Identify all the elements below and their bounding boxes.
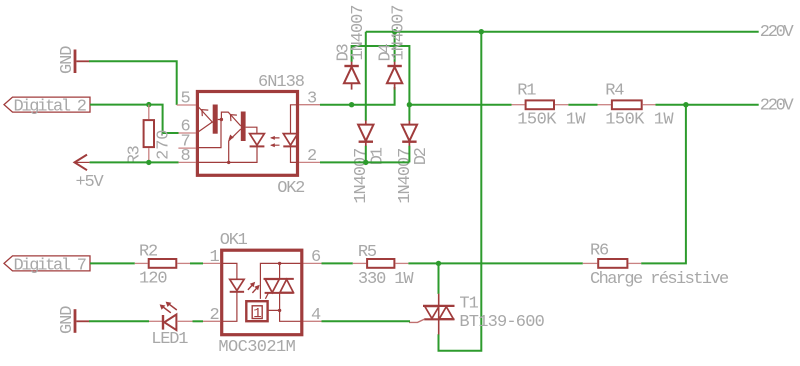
svg-text:T1: T1 <box>459 295 478 314</box>
svg-text:220V: 220V <box>760 96 795 115</box>
wire R2 to OK1 pin1 <box>190 262 203 264</box>
svg-text:270: 270 <box>154 130 173 160</box>
wire D3 cathode to D2 column <box>352 46 410 105</box>
wire OK1 pin6 to R5 <box>322 262 353 264</box>
pin 6 <box>303 248 321 267</box>
junction at R3 bottom <box>146 160 151 165</box>
svg-text:MOC3021M: MOC3021M <box>218 338 295 357</box>
svg-text:2: 2 <box>307 147 317 166</box>
svg-text:OK1: OK1 <box>220 231 248 250</box>
svg-text:GND: GND <box>58 306 77 334</box>
pin 3 <box>299 89 321 108</box>
wire top 220V line <box>366 31 759 33</box>
svg-text:GND: GND <box>58 46 77 74</box>
pin 7 <box>178 133 196 152</box>
svg-text:Digital 2: Digital 2 <box>14 98 86 117</box>
supply +5V <box>75 155 105 193</box>
wire OK2 pin2 <box>320 161 409 163</box>
wire Digital 7 to R2 <box>90 262 135 264</box>
svg-text:Digital 7: Digital 7 <box>14 256 86 275</box>
wire LED1 to OK1 pin2 <box>193 320 204 322</box>
resistor R2 <box>135 242 190 288</box>
diode D1 <box>352 121 387 204</box>
wire GND to LED1 <box>89 320 149 322</box>
svg-text:2: 2 <box>210 306 220 325</box>
svg-text:6N138: 6N138 <box>258 73 305 92</box>
svg-text:220V: 220V <box>760 23 795 42</box>
wire D2 top/bottom <box>408 105 410 163</box>
wire R4 to 220V right <box>656 104 759 106</box>
OK1 internal LED, arrows, triac, zero-cross box <box>222 262 303 323</box>
svg-text:1N4007: 1N4007 <box>349 6 368 61</box>
junction D4 top <box>392 29 397 34</box>
ground GND (top) <box>58 46 90 74</box>
ground GND (bottom) <box>58 306 90 334</box>
resistor R6 <box>583 241 729 289</box>
svg-text:Charge résistive: Charge résistive <box>590 270 729 289</box>
junction D3 bottom <box>349 102 354 107</box>
svg-text:R4: R4 <box>605 81 624 100</box>
wire R6 up to 220V line <box>641 105 686 264</box>
svg-text:4: 4 <box>311 306 321 325</box>
wire long vertical to triac <box>439 32 482 351</box>
LED LED1 <box>149 302 193 349</box>
pin 1 <box>203 248 220 267</box>
wire GND to OK2 pin5 <box>89 61 177 105</box>
svg-text:5: 5 <box>181 89 191 108</box>
wire +5V to OK2 pin8 <box>90 161 179 163</box>
svg-text:+5V: +5V <box>76 173 105 192</box>
svg-text:R5: R5 <box>358 243 377 262</box>
svg-text:6: 6 <box>311 248 321 267</box>
svg-text:R6: R6 <box>590 241 609 260</box>
svg-text:BT139-600: BT139-600 <box>459 313 544 332</box>
svg-text:1: 1 <box>253 306 261 322</box>
svg-text:D2: D2 <box>412 148 431 165</box>
svg-text:8: 8 <box>181 147 191 166</box>
pin 2 <box>203 306 220 325</box>
node Digital 2 label <box>4 97 90 117</box>
svg-text:R2: R2 <box>139 242 157 261</box>
svg-text:150K 1W: 150K 1W <box>517 111 586 130</box>
wire OK2 pin3 to D3/D4 <box>320 87 395 105</box>
wire D1 bottom to pin2 line <box>365 146 367 163</box>
svg-text:150K 1W: 150K 1W <box>605 111 674 130</box>
junction 220V vertical <box>479 29 484 34</box>
wire junction down to triac T1 <box>438 263 440 294</box>
junction triac top <box>436 261 441 266</box>
svg-text:LED1: LED1 <box>151 330 188 349</box>
wire D1 column from top line <box>365 32 367 121</box>
junction right vertical top <box>683 102 688 107</box>
wire D2 junction to R1 <box>409 104 511 106</box>
resistor R1 <box>512 81 587 129</box>
wire R5 to R6 <box>408 262 582 264</box>
wire D4 top <box>394 32 396 62</box>
diode D4 <box>376 6 408 90</box>
wire Digital 2 to OK2 pin6 <box>90 105 179 133</box>
junction D2 top <box>407 102 412 107</box>
junction at R3 top <box>146 102 151 107</box>
pin 6 <box>178 118 196 137</box>
optocoupler OK1 MOC3021M box <box>218 231 301 357</box>
pin 8 <box>178 147 196 166</box>
triac T1 BT139-600 <box>409 294 545 335</box>
resistor R5 <box>353 243 415 289</box>
diode D3 <box>335 6 368 90</box>
svg-text:330 1W: 330 1W <box>358 270 415 289</box>
pin 5 <box>177 89 196 108</box>
junction D1 bottom <box>363 160 368 165</box>
svg-text:R1: R1 <box>517 81 536 100</box>
svg-text:1N4007: 1N4007 <box>390 6 409 61</box>
wire OK1 pin4 to triac gate <box>322 320 411 322</box>
svg-text:1: 1 <box>210 248 220 267</box>
optocoupler OK2 6N138 box <box>197 73 304 198</box>
pin 4 <box>303 306 321 325</box>
OK2 internal darlington and photodiode <box>196 105 297 165</box>
wire R1 to R4 <box>568 104 597 106</box>
svg-text:OK2: OK2 <box>277 179 304 198</box>
node Digital 7 label <box>4 256 90 276</box>
resistor R3 <box>125 105 173 165</box>
resistor R4 <box>598 81 675 129</box>
diode D2 <box>396 121 431 204</box>
pin 2 <box>299 147 321 166</box>
svg-text:3: 3 <box>307 89 317 108</box>
svg-text:120: 120 <box>139 269 167 288</box>
